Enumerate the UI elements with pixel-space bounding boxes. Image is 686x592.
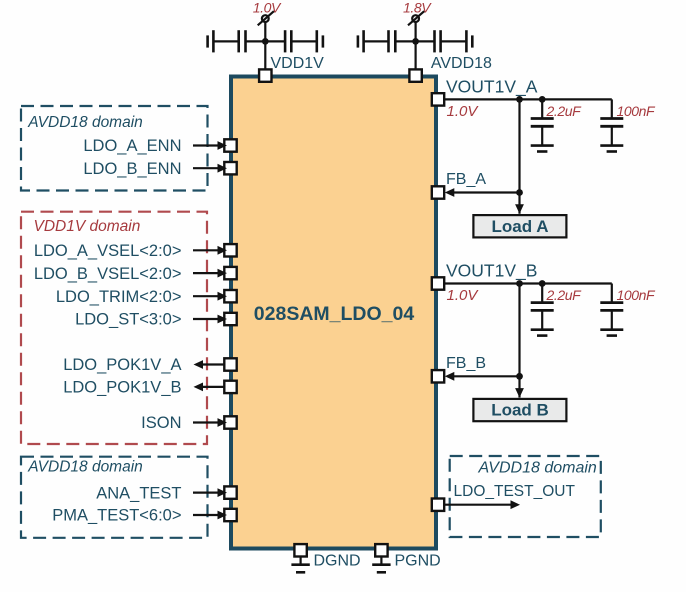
svg-text:FB_A: FB_A <box>446 171 486 188</box>
junction VDD1V <box>262 38 269 45</box>
svg-text:ISON: ISON <box>141 414 181 432</box>
pin ANA_TEST <box>224 486 236 498</box>
pin LDO_POK1V_B <box>224 381 236 393</box>
junction VOUT1V_B load tap <box>516 280 523 287</box>
svg-text:VDD1V domain: VDD1V domain <box>34 218 141 235</box>
pin LDO_B_ENN <box>224 162 236 174</box>
capacitor 100nF (A) <box>600 99 623 145</box>
op-amp/IC body U1 028SAM_LDO_04 <box>231 77 436 549</box>
svg-text:FB_B: FB_B <box>446 355 486 372</box>
capacitor 2.2uF (A) <box>531 99 554 145</box>
junction FB_B <box>516 373 523 380</box>
power symbol 1.0V <box>258 11 274 25</box>
svg-text:LDO_TEST_OUT: LDO_TEST_OUT <box>454 483 576 500</box>
svg-text:VOUT1V_B: VOUT1V_B <box>446 261 537 282</box>
arrow into Load A <box>515 204 524 214</box>
wire LDO_ST<3:0> with input arrow <box>193 315 227 324</box>
svg-text:Load A: Load A <box>492 217 549 236</box>
svg-text:PGND: PGND <box>395 552 441 569</box>
pin VDD1V <box>259 69 271 81</box>
svg-text:1.0V: 1.0V <box>253 0 282 16</box>
svg-text:100nF: 100nF <box>617 103 657 119</box>
ground (100nF A) <box>600 146 623 152</box>
svg-text:AVDD18 domain: AVDD18 domain <box>478 460 597 477</box>
svg-text:PMA_TEST<6:0>: PMA_TEST<6:0> <box>52 507 181 525</box>
wire DGND to ground <box>300 557 302 565</box>
decoupling capacitor bank AVDD18 <box>358 30 472 52</box>
wire FB_B with input arrow <box>445 372 520 381</box>
pin DGND <box>294 544 306 556</box>
junction FB_A <box>516 189 523 196</box>
wire LDO_POK1V_B with output arrow <box>194 383 225 392</box>
wire PMA_TEST<6:0> with input arrow <box>193 511 227 520</box>
svg-text:2.2uF: 2.2uF <box>546 287 583 303</box>
load block Load A <box>473 215 566 237</box>
svg-text:LDO_TRIM<2:0>: LDO_TRIM<2:0> <box>56 288 182 306</box>
wire FB_A with input arrow <box>445 188 520 197</box>
capacitor 100nF (B) <box>600 284 623 330</box>
wire VOUT1V_A to Load A vertical <box>518 99 520 213</box>
svg-text:AVDD18: AVDD18 <box>431 55 492 72</box>
ground (100nF B) <box>600 330 623 336</box>
junction VOUT1V_A cap tap <box>539 96 546 103</box>
wire VDD1V vertical <box>264 22 266 70</box>
wire AVDD18 vertical <box>415 22 417 70</box>
domain box AVDD18 (bottom-left) <box>21 457 208 538</box>
wire VOUT1V_A horizontal <box>444 98 612 100</box>
load block Load B <box>473 399 566 421</box>
domain box AVDD18 (right) <box>450 456 601 537</box>
svg-text:LDO_A_ENN: LDO_A_ENN <box>83 137 181 155</box>
wire LDO_B_ENN with input arrow <box>193 164 227 173</box>
svg-text:LDO_A_VSEL<2:0>: LDO_A_VSEL<2:0> <box>34 242 182 260</box>
ground (2.2uF A) <box>531 146 554 152</box>
wire VOUT1V_B horizontal <box>444 282 612 284</box>
power symbol 1.8V <box>408 11 424 25</box>
pin AVDD18 <box>409 69 421 81</box>
svg-text:LDO_B_VSEL<2:0>: LDO_B_VSEL<2:0> <box>34 265 182 283</box>
svg-text:AVDD18 domain: AVDD18 domain <box>27 114 143 131</box>
wire ANA_TEST with input arrow <box>193 488 227 497</box>
wire PGND to ground <box>380 557 382 565</box>
domain box VDD1V <box>21 212 207 444</box>
svg-text:100nF: 100nF <box>617 287 657 303</box>
ground (DGND) <box>291 565 309 573</box>
decoupling capacitor bank VDD1V <box>208 30 323 52</box>
svg-text:1.8V: 1.8V <box>403 0 432 16</box>
pin VOUT1V_B <box>432 277 444 289</box>
svg-text:1.0V: 1.0V <box>447 287 480 304</box>
pin FB_B <box>432 370 444 382</box>
junction AVDD18 <box>412 38 419 45</box>
domain box AVDD18 (top-left) <box>21 106 208 191</box>
pin VOUT1V_A <box>432 93 444 105</box>
pin LDO_POK1V_A <box>224 358 236 370</box>
svg-text:LDO_ST<3:0>: LDO_ST<3:0> <box>75 311 181 329</box>
pin LDO_A_VSEL<2:0> <box>224 244 236 256</box>
svg-text:028SAM_LDO_04: 028SAM_LDO_04 <box>254 303 415 325</box>
pin PMA_TEST<6:0> <box>224 509 236 521</box>
wire LDO_B_VSEL<2:0> with input arrow <box>193 269 227 278</box>
pin LDO_B_VSEL<2:0> <box>224 267 236 279</box>
svg-text:2.2uF: 2.2uF <box>546 103 583 119</box>
wire capacitor row VDD1V <box>213 40 316 42</box>
ground (PGND) <box>372 565 390 573</box>
pin LDO_TRIM<2:0> <box>224 290 236 302</box>
wire LDO_TEST_OUT with output arrow <box>444 500 520 509</box>
svg-text:VOUT1V_A: VOUT1V_A <box>446 76 538 97</box>
pin LDO_TEST_OUT <box>432 499 444 511</box>
svg-text:Load B: Load B <box>491 401 549 420</box>
svg-text:ANA_TEST: ANA_TEST <box>96 484 181 502</box>
pin PGND <box>375 544 387 556</box>
pin FB_A <box>432 186 444 198</box>
svg-text:VDD1V: VDD1V <box>271 55 325 72</box>
svg-text:LDO_B_ENN: LDO_B_ENN <box>83 160 181 178</box>
wire capacitor row AVDD18 <box>364 40 467 42</box>
wire VOUT1V_B to Load B vertical <box>518 284 520 398</box>
junction VOUT1V_A load tap <box>516 96 523 103</box>
svg-text:DGND: DGND <box>314 552 361 569</box>
pin ISON <box>224 416 236 428</box>
junction VOUT1V_B cap tap <box>539 280 546 287</box>
pin LDO_ST<3:0> <box>224 313 236 325</box>
arrow into Load B <box>515 388 524 398</box>
pin LDO_A_ENN <box>224 139 236 151</box>
svg-text:AVDD18 domain: AVDD18 domain <box>27 459 143 476</box>
svg-text:LDO_POK1V_B: LDO_POK1V_B <box>63 379 181 397</box>
svg-text:1.0V: 1.0V <box>447 103 480 120</box>
svg-text:LDO_POK1V_A: LDO_POK1V_A <box>63 356 181 374</box>
wire LDO_TRIM<2:0> with input arrow <box>193 292 227 301</box>
capacitor 2.2uF (B) <box>531 284 554 330</box>
wire LDO_A_ENN with input arrow <box>193 141 227 150</box>
wire ISON with input arrow <box>193 418 227 427</box>
wire LDO_POK1V_A with output arrow <box>194 360 225 369</box>
wire LDO_A_VSEL<2:0> with input arrow <box>193 246 227 255</box>
ground (2.2uF B) <box>531 330 554 336</box>
